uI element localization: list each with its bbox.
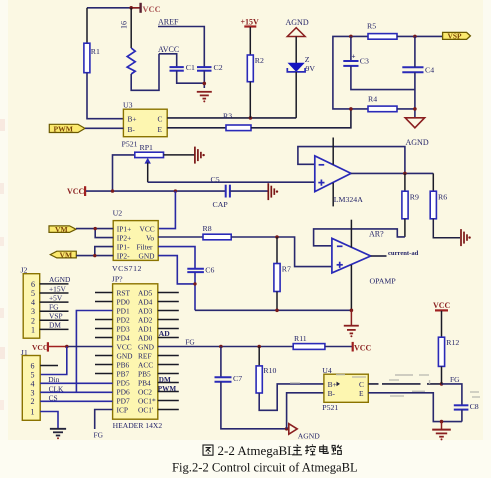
svg-text:+15V: +15V (241, 18, 260, 27)
svg-text:current-ad: current-ad (388, 250, 419, 257)
watermark artifact gaps on C wire (379, 383, 428, 385)
RP1 wiper arrow (145, 158, 151, 182)
svg-text:PB4: PB4 (138, 379, 151, 388)
node junction output/feedback (403, 172, 407, 176)
svg-text:AR?: AR? (369, 230, 384, 239)
svg-text:AD4: AD4 (138, 298, 153, 307)
svg-text:C1: C1 (186, 63, 195, 72)
svg-text:3: 3 (31, 307, 35, 316)
svg-text:PB6: PB6 (117, 361, 130, 370)
svg-text:VCC: VCC (143, 5, 161, 14)
power VCC tick (left) (67, 186, 86, 196)
svg-text:+5V: +5V (49, 293, 63, 302)
port flag PWM (49, 124, 85, 133)
wire U3 E to R3 (167, 127, 226, 129)
wire pin16 resistor top lead (130, 8, 132, 48)
svg-text:VCC: VCC (140, 224, 155, 233)
svg-text:PWM: PWM (158, 385, 177, 393)
wire +15V to R2 (249, 27, 251, 55)
svg-text:PD5: PD5 (117, 379, 130, 388)
svg-text:FG: FG (49, 303, 59, 312)
svg-text:5: 5 (31, 289, 35, 298)
svg-text:R10: R10 (263, 366, 276, 375)
node junction R10 (257, 345, 261, 349)
power VCC tick (R11) (352, 342, 372, 352)
svg-text:2: 2 (31, 316, 35, 325)
svg-text:PD4: PD4 (117, 334, 130, 343)
svg-text:GND: GND (138, 343, 155, 352)
wire U3 C to R2 / zener (167, 117, 296, 119)
ground AGND triangle (up) (287, 28, 305, 37)
svg-text:VM: VM (60, 250, 73, 259)
svg-text:PB7: PB7 (117, 370, 130, 379)
node junction RP1 drop (111, 189, 114, 192)
svg-text:AGND: AGND (298, 432, 320, 441)
wire R5 to VSP (397, 35, 443, 37)
port flag VM (upper) (49, 225, 76, 234)
zener diode Z 9V (287, 55, 315, 73)
wire RP1 left to VCC rail (113, 155, 135, 191)
svg-text:JP?: JP? (112, 275, 123, 284)
svg-text:VCC: VCC (354, 343, 372, 352)
ground AGND triangle (down) (405, 118, 424, 128)
resistor R12 (438, 311, 459, 384)
svg-text:P521: P521 (122, 139, 138, 148)
svg-text:PD7: PD7 (117, 397, 130, 406)
capacitor C4 (402, 66, 434, 75)
svg-text:HEADER 14X2: HEADER 14X2 (113, 421, 163, 430)
svg-text:9V: 9V (306, 64, 316, 73)
resistor R9 (402, 173, 419, 237)
wire C2 bottom stub (203, 71, 205, 88)
capacitor C2 (197, 63, 223, 72)
node junction R2 bottom (249, 116, 253, 120)
resistor R4 (368, 94, 397, 111)
U4 B+ diode arrow (337, 382, 341, 387)
svg-text:B-: B- (128, 125, 136, 134)
svg-text:DM: DM (49, 321, 61, 330)
svg-text:REF: REF (138, 352, 152, 361)
resistor R2 (247, 55, 264, 82)
ground AGND arrow (right-pointing) (289, 424, 297, 435)
svg-text:C6: C6 (205, 265, 214, 274)
op-amp U1 triangle (315, 156, 351, 192)
svg-text:PD6: PD6 (117, 388, 130, 397)
capacitor C8 (454, 402, 479, 411)
wire VCC rail to C5 (86, 190, 226, 192)
J2 pin numbers (31, 280, 35, 335)
power VCC symbol (top) (129, 3, 160, 14)
wire VM to IP1- / IP2- (76, 247, 113, 256)
J1 pin numbers (31, 362, 35, 417)
svg-text:4: 4 (31, 379, 35, 388)
svg-text:OC2: OC2 (138, 388, 152, 397)
wire AVCC to C1 (159, 54, 177, 67)
resistor R3 (226, 125, 251, 131)
svg-text:Vo: Vo (146, 233, 154, 242)
wire CS (J1.2 to PD7) (40, 400, 112, 402)
svg-text:R8: R8 (203, 224, 212, 233)
J2 net labels (49, 275, 71, 330)
svg-text:AD5: AD5 (138, 289, 153, 298)
port flag VSP (443, 32, 471, 41)
resistor R11 (293, 334, 325, 349)
svg-text:VSP: VSP (49, 312, 63, 321)
wire C1 bottom rail (177, 71, 205, 84)
node junction C3 top (349, 35, 353, 39)
svg-text:C3: C3 (360, 56, 369, 65)
header JP? body (113, 284, 158, 419)
svg-text:Fig.2-2 Control circuit of Atm: Fig.2-2 Control circuit of AtmegaBL (172, 460, 358, 474)
svg-text:3: 3 (31, 388, 35, 397)
svg-text:R7: R7 (282, 264, 291, 273)
resistor (zigzag, pin 16 pull-up) (127, 48, 135, 74)
svg-text:4: 4 (31, 298, 35, 307)
power VCC symbol (R12) (433, 301, 451, 312)
wire R11 to VCC (325, 346, 352, 348)
wire AGND to zener (295, 37, 297, 64)
op-amp2 plus sign (337, 262, 343, 268)
wire C7 bottom to AGND arrow (221, 382, 289, 429)
svg-text:C2: C2 (214, 63, 223, 72)
wire AREF to C2 (158, 27, 204, 68)
wire C7 top lead (220, 347, 222, 378)
power VCC tick (J1/JP) (32, 342, 49, 352)
wire U4 E to ground rail (368, 393, 462, 422)
svg-text:LM324A: LM324A (334, 195, 363, 204)
svg-text:R9: R9 (410, 192, 419, 201)
wire FG rail to R11 (158, 346, 293, 348)
resistor R5 (367, 22, 397, 40)
svg-text:1: 1 (31, 408, 35, 417)
svg-text:AGND: AGND (286, 18, 309, 27)
potentiometer RP1 body (135, 152, 164, 157)
svg-text:6: 6 (31, 362, 35, 371)
svg-text:VCC: VCC (32, 343, 48, 352)
wire R1 bottom to U3 B+ (87, 73, 123, 119)
wire ICP to FG stub (95, 410, 113, 430)
svg-text:R4: R4 (368, 94, 377, 103)
wire zener bottom (295, 72, 297, 118)
wire J1 pin1 to ground (40, 412, 58, 429)
svg-text:ICP: ICP (117, 406, 129, 415)
power +15V symbol (241, 18, 260, 28)
svg-text:U2: U2 (113, 208, 123, 217)
capacitor C3 (polar) (343, 36, 369, 66)
svg-text:AD3: AD3 (138, 307, 153, 316)
JP? left pin stubs (95, 293, 113, 374)
caption line 1 (203, 443, 342, 458)
svg-text:GND: GND (139, 251, 156, 260)
svg-text:C7: C7 (233, 374, 242, 383)
optocoupler U4 body (324, 374, 368, 402)
node junction U4 B- drop (285, 427, 289, 431)
node junction R3 riser (349, 107, 353, 111)
svg-text:DM: DM (159, 376, 171, 384)
svg-text:1: 1 (31, 325, 35, 334)
svg-text:C8: C8 (470, 402, 479, 411)
op-amp U? triangle (332, 238, 371, 273)
resistor R7 (274, 237, 291, 310)
node junction R12 bottom (440, 382, 444, 386)
capacitor C1 (170, 63, 196, 72)
wire R1 top lead (86, 8, 88, 43)
svg-text:VCS712: VCS712 (112, 264, 142, 273)
wire U2 Vo to R8 (158, 236, 203, 238)
svg-text:2: 2 (31, 397, 35, 406)
port flag VM (lower, left-pointing) (50, 250, 76, 259)
resistor R6 (430, 173, 447, 218)
ground (under R12/C8) (432, 422, 451, 441)
wire U2 GND loop to C6 bottom (158, 256, 195, 284)
svg-text:VCC: VCC (117, 343, 132, 352)
svg-text:PB5: PB5 (138, 370, 151, 379)
node junction R7 bottom (275, 309, 279, 313)
svg-text:IP1+: IP1+ (117, 224, 131, 233)
node junction C6/GND (193, 282, 196, 285)
svg-text:C: C (158, 115, 163, 124)
op-amp power stubs (332, 138, 334, 165)
svg-text:B+: B+ (128, 115, 137, 124)
svg-text:VM: VM (55, 225, 68, 234)
svg-text:E: E (158, 125, 163, 134)
J1 pin6 stub (40, 365, 58, 367)
ground (sideways, right of C5) (268, 183, 278, 200)
op-amp plus sign (318, 180, 324, 186)
svg-text:PWM: PWM (54, 124, 73, 133)
svg-text:CAP: CAP (213, 200, 229, 209)
svg-text:AD: AD (159, 329, 170, 338)
svg-text:RST: RST (117, 289, 131, 298)
svg-text:5: 5 (31, 371, 35, 380)
wire op-amp2 output (371, 255, 387, 257)
node junction C4 top (413, 35, 417, 39)
node junction R7 top (275, 235, 279, 239)
svg-text:FG: FG (185, 337, 195, 346)
svg-text:AREF: AREF (158, 18, 179, 27)
wire PD1 net to CLK column (76, 311, 112, 393)
node junction VM2 (93, 254, 96, 257)
svg-text:PD1: PD1 (117, 307, 130, 316)
svg-text:Filter: Filter (137, 242, 154, 251)
svg-text:R1: R1 (91, 47, 100, 56)
wire R5/R4 left node (333, 36, 368, 109)
watermark artifact dashes (290, 375, 480, 397)
wire C5 right (230, 190, 268, 192)
wire wiper to op-amp + input (148, 181, 315, 183)
svg-text:B+: B+ (328, 380, 337, 389)
capacitor C6 (187, 265, 214, 274)
wire R10 bottom to U4 B+ (259, 384, 324, 410)
wire FG to C8 (442, 384, 462, 405)
svg-text:6: 6 (31, 280, 35, 289)
svg-text:AGND: AGND (49, 275, 71, 284)
capacitor C7 (215, 374, 243, 383)
wire feedback loop op-amp2 (314, 229, 405, 246)
wire C6 bottom to ground rail (194, 272, 196, 310)
svg-text:R6: R6 (438, 192, 447, 201)
op-amp minus sign (319, 164, 325, 166)
node junction C7 (219, 345, 223, 349)
svg-text:AD0: AD0 (138, 334, 153, 343)
svg-text:AVCC: AVCC (158, 45, 179, 54)
wire op-amp output (351, 172, 433, 174)
svg-text:2-2 AtmegaBL: 2-2 AtmegaBL (218, 443, 296, 458)
svg-text:ACC: ACC (138, 361, 153, 370)
wire PWM to U3 B- (85, 127, 123, 129)
svg-text:C: C (359, 380, 364, 389)
svg-text:IP1-: IP1- (117, 242, 130, 251)
node junction rail/opamp2 ground (350, 309, 354, 313)
wire CLK (J1.3 to PD6) (40, 391, 112, 393)
svg-text:R12: R12 (446, 338, 459, 347)
svg-text:+: + (352, 52, 356, 60)
svg-text:PD0: PD0 (117, 298, 130, 307)
svg-text:OPAMP: OPAMP (370, 276, 397, 285)
svg-text:C5: C5 (211, 175, 220, 184)
svg-text:B-: B- (328, 389, 336, 398)
J2 pin wires (40, 284, 69, 330)
wire VM to IP1+ / IP2+ (76, 229, 113, 238)
svg-text:IP2+: IP2+ (117, 233, 131, 242)
JP? pin names (117, 289, 156, 415)
svg-text:R5: R5 (367, 22, 376, 31)
svg-text:C4: C4 (425, 66, 434, 75)
optocoupler U3 body (123, 109, 167, 137)
U4 pin names (328, 380, 364, 398)
ground (below op-amp2) (344, 310, 359, 337)
resistor R8 (203, 234, 231, 240)
U2 pin names (117, 224, 155, 260)
svg-text:RP1: RP1 (140, 143, 154, 152)
svg-text:PD3: PD3 (117, 325, 130, 334)
svg-text:OC1': OC1' (138, 406, 154, 415)
wire U2 Filter to C6 (158, 247, 195, 269)
svg-text:AD1: AD1 (138, 325, 153, 334)
node junction VCC/J1.5 (65, 345, 69, 349)
resistor R1 (84, 43, 100, 72)
wire zigzag bottom to AVCC (131, 54, 159, 91)
svg-text:U3: U3 (123, 101, 133, 110)
connector J2 body (23, 274, 40, 339)
svg-text:E: E (359, 389, 364, 398)
svg-text:PD2: PD2 (117, 316, 130, 325)
wire VCC to JP (47, 346, 67, 348)
svg-text:R11: R11 (294, 334, 307, 343)
svg-text:FG: FG (450, 375, 460, 384)
node junction ground stub (440, 420, 444, 424)
wire R6 bottom to ground (433, 219, 460, 238)
wire R4 right (397, 108, 415, 110)
wire C4 verticals (414, 36, 416, 67)
ground (J1 pin1) (50, 429, 66, 439)
node junction R4 right (413, 107, 417, 111)
capacitor C5 (211, 175, 230, 209)
svg-text:OC1*: OC1* (138, 397, 156, 406)
node junction C1/C2 ground (203, 82, 207, 86)
node junction U2 VCC riser (174, 189, 177, 192)
wire C3 bottom rail (351, 66, 415, 90)
op-amp2 minus sign (337, 245, 343, 247)
svg-text:VCC: VCC (433, 301, 451, 310)
wire Din (J1.4 to PD5) (40, 382, 112, 384)
wire U2 VCC pin riser (158, 191, 175, 229)
resistor R10 (256, 347, 276, 394)
svg-text:GND: GND (117, 352, 134, 361)
wire VCC down to J1 pin5 (40, 347, 67, 375)
wire feedback loop (inverting input) (298, 147, 405, 174)
svg-text:VCC: VCC (67, 187, 85, 196)
svg-text:VSP: VSP (448, 32, 462, 41)
svg-text:+15V: +15V (49, 284, 67, 293)
wire U4 B- to AGND (287, 393, 324, 429)
wire VCC top rail (87, 7, 140, 9)
wire C8 bottom (461, 410, 463, 422)
svg-text:IP2-: IP2- (117, 251, 130, 260)
node junction VM1 (94, 227, 97, 230)
ground (below C1 C2) (197, 92, 212, 103)
svg-text:16: 16 (120, 21, 129, 29)
ground (sideways, right of RP1) (195, 147, 205, 164)
connector J1 body (22, 356, 40, 421)
U2 body (113, 221, 158, 261)
svg-text:P521: P521 (322, 403, 338, 412)
wire U4 C to R12/FG (368, 383, 441, 385)
svg-text:AD2: AD2 (138, 316, 153, 325)
ground (sideways, right of R6) (461, 229, 471, 246)
svg-text:R3: R3 (223, 112, 232, 121)
U3 pin names (128, 115, 163, 134)
wire analog ground rail (195, 309, 351, 311)
svg-text:FG: FG (94, 430, 104, 439)
wire RP1 right (164, 154, 195, 156)
svg-text:Z: Z (305, 55, 310, 64)
wire R2 bottom (249, 82, 251, 118)
op-amp2 power stubs (350, 220, 352, 248)
wire R8 to op-amp2 + input (231, 237, 332, 267)
svg-text:AGND: AGND (406, 138, 429, 147)
JP? right pin stubs (158, 293, 179, 410)
wire R3 to R4 node (251, 109, 351, 128)
svg-text:R2: R2 (255, 56, 264, 65)
